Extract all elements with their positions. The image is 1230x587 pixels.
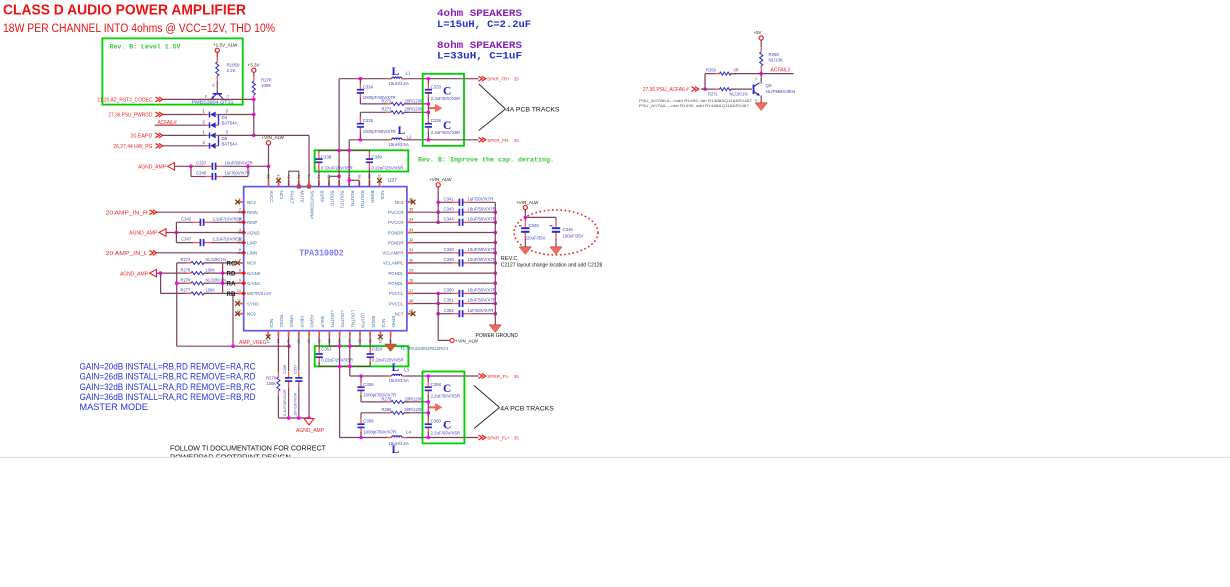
wire AMP_VREG <box>177 345 289 347</box>
wire C339 top <box>368 150 370 152</box>
svg-text:RD: RD <box>227 271 236 278</box>
junction R275 <box>221 271 225 275</box>
svg-text:+VIN_ALW: +VIN_ALW <box>516 200 539 205</box>
wire C348 to gnd bus <box>470 252 495 254</box>
junction gnd bus <box>494 210 498 214</box>
red arrow right channel <box>429 104 443 112</box>
junction ROUTP pins <box>337 175 341 179</box>
svg-text:C356: C356 <box>282 365 287 374</box>
rev B level box <box>102 38 242 104</box>
wire pin39 jog left <box>349 179 359 181</box>
svg-text:27,36 PSU_PWRGD: 27,36 PSU_PWRGD <box>108 113 152 119</box>
diode D4 element A <box>206 112 219 118</box>
svg-text:PGNDR: PGNDR <box>388 240 404 245</box>
svg-text:33: 33 <box>409 228 413 232</box>
wire C338 top <box>318 150 320 152</box>
wire AZ_RST#_CODEC to QT31 and R270 node <box>161 98 254 100</box>
junction C354/LOUTN <box>348 365 352 369</box>
wire pin19 jog right <box>329 345 339 347</box>
no-connect X <box>266 335 271 340</box>
junction C337/C340 <box>189 165 193 169</box>
no-connect X <box>235 301 240 306</box>
svg-text:+VIN_ALW: +VIN_ALW <box>456 338 479 343</box>
pin 15 VREG <box>286 315 294 343</box>
wire C353 bottom <box>318 362 320 367</box>
svg-text:NC9: NC9 <box>247 312 256 317</box>
svg-text:C2127 layout change location a: C2127 layout change location and add C21… <box>501 263 603 269</box>
svg-text:R279: R279 <box>382 396 393 401</box>
wire D4 pin3 to node <box>219 114 254 116</box>
svg-text:R272: R272 <box>382 98 393 103</box>
wire to C360 <box>427 413 429 420</box>
capacitor C348 <box>452 249 470 256</box>
pin 28 PGNDL <box>388 279 413 286</box>
wire C346 to gnd <box>555 239 557 247</box>
junction C353/LOUTP <box>338 365 342 369</box>
resistor R272 <box>386 102 409 105</box>
wire C355 to R279 <box>360 395 362 402</box>
wire R274 node down to AMP_VREG <box>176 263 178 346</box>
wire C341 to gnd bus <box>470 201 495 203</box>
wire R275 to node <box>204 272 223 274</box>
svg-text:LOUTN: LOUTN <box>361 313 366 328</box>
svg-text:R271: R271 <box>708 92 719 97</box>
junction R276 <box>221 281 225 285</box>
svg-text:RC: RC <box>227 260 236 267</box>
inductor L3 <box>387 374 407 376</box>
pin 18 BSLP <box>317 316 325 343</box>
wire ROUTP column <box>338 79 340 187</box>
ground C345 <box>519 247 531 255</box>
svg-text:26,27,44 HW_PG: 26,27,44 HW_PG <box>113 144 152 150</box>
capacitor C344 <box>452 219 470 226</box>
ground Q9 <box>755 103 767 111</box>
wire R270 node down to diodes <box>253 100 255 135</box>
ground AGND_AMP (below IC) <box>304 419 314 426</box>
junction gnd bus <box>494 292 498 296</box>
wire ACFAIL branch down <box>704 74 706 90</box>
junction R273 node <box>427 111 431 115</box>
no-connect X <box>235 261 240 266</box>
svg-text:SYNC: SYNC <box>247 301 259 306</box>
pin 40 ROUTN <box>347 174 355 206</box>
svg-text:NL/1K/1%: NL/1K/1% <box>730 92 749 97</box>
wire LOUTP filter row <box>340 437 479 439</box>
junction AMP_VREG <box>231 344 235 348</box>
wire to C348 <box>413 252 452 254</box>
wire C360 to LOUTP row <box>427 432 429 437</box>
pin 39 ROUTN1 <box>357 174 365 209</box>
svg-text:L3: L3 <box>404 368 409 373</box>
svg-text:C350: C350 <box>444 288 455 293</box>
wire FAULT-MUTE loop <box>289 171 299 186</box>
wire to C352 <box>438 313 452 315</box>
net ACFAIL# label <box>158 120 177 126</box>
pin 38 BSRN <box>367 174 375 202</box>
capacitor C342 <box>193 219 211 226</box>
junction gnd bus <box>494 261 498 265</box>
pin 13 NC3 <box>266 319 274 344</box>
svg-text:EPAD: EPAD <box>391 316 396 328</box>
resistor R279 <box>386 400 409 403</box>
bootstrap box right channel <box>315 150 409 171</box>
wire to C340 <box>191 176 205 178</box>
no-connect X <box>411 311 416 316</box>
svg-text:1000pF/50V/X7R: 1000pF/50V/X7R <box>363 129 396 134</box>
svg-text:C349: C349 <box>444 257 455 262</box>
wire to C349 <box>413 262 452 264</box>
svg-text:C351: C351 <box>444 298 455 303</box>
pin 32 PGNDR <box>388 238 414 245</box>
svg-text:+5V: +5V <box>754 30 762 35</box>
svg-text:AGND: AGND <box>310 315 315 328</box>
wire C336 to ROUTN row <box>427 132 429 140</box>
wire C350 to gnd bus <box>470 292 495 294</box>
wire node to GAIN1 <box>223 282 238 284</box>
wire C353 to LOUTP <box>319 365 370 367</box>
wire to C342 <box>176 221 193 223</box>
capacitor C351 <box>452 300 470 307</box>
thermal pad T1 triangle <box>385 337 397 352</box>
wire input cap loop vertical <box>175 222 177 242</box>
capacitor C359 <box>357 418 364 434</box>
junction gnd bus <box>494 271 498 275</box>
svg-text:L=33uH, C=1uF: L=33uH, C=1uF <box>437 51 522 62</box>
svg-text:C357: C357 <box>292 365 297 374</box>
port arrow AZ_RST#_CODEC <box>155 97 162 102</box>
wire to R272 <box>360 103 391 105</box>
svg-text:0.22uF/25V/X5R: 0.22uF/25V/X5R <box>372 166 404 171</box>
junction D4 cathode node <box>252 113 256 117</box>
junction gnd bus <box>494 241 498 245</box>
ground AGND_AMP (gain) <box>150 269 157 277</box>
svg-text:VCLAMPR: VCLAMPR <box>382 251 403 256</box>
svg-text:4A PCB TRACKS: 4A PCB TRACKS <box>506 107 560 114</box>
svg-text:NL/10K: NL/10K <box>769 58 783 63</box>
svg-text:C344: C344 <box>444 216 455 221</box>
wire to C347 <box>176 242 193 244</box>
svg-text:GAIN0: GAIN0 <box>247 271 261 276</box>
svg-text:AVCC: AVCC <box>269 191 274 203</box>
power +1.5V_ALW <box>215 48 219 52</box>
wire +VIN to cap rows <box>437 187 439 222</box>
port arrow AMP_IN_R <box>150 210 157 215</box>
pin 25 NC7 <box>395 309 414 316</box>
wire BSRN to C339 <box>368 166 370 187</box>
svg-text:FAULT: FAULT <box>289 191 294 205</box>
wire LOUTP column <box>339 337 341 438</box>
pin 35 PVCCR <box>388 208 413 215</box>
capacitor C339 <box>366 153 373 169</box>
pin 45 MUTE <box>296 174 304 203</box>
junction ROUTN pins <box>347 179 351 183</box>
resistor R269 <box>715 72 737 75</box>
svg-text:R277: R277 <box>181 288 192 293</box>
wire pin42 jog right <box>329 175 339 177</box>
svg-text:8ohm SPEAKERS: 8ohm SPEAKERS <box>437 40 522 51</box>
svg-text:PVCCR: PVCCR <box>388 210 403 215</box>
wire LOUTN column <box>349 337 351 376</box>
svg-text:R275: R275 <box>181 267 192 272</box>
wire AGND to C337 <box>175 165 206 167</box>
svg-text:27: 27 <box>409 289 413 293</box>
pin 11 SYNC <box>237 299 259 306</box>
wire pin22 jog down <box>359 337 361 346</box>
svg-text:C342: C342 <box>181 216 192 221</box>
wire PGND row to bus <box>413 242 495 244</box>
junction C359 tap <box>359 436 363 440</box>
wire R279 to C node <box>404 401 428 403</box>
junction C333 tap <box>427 77 431 81</box>
wire C344 to gnd bus <box>470 221 495 223</box>
svg-text:ROUTP1: ROUTP1 <box>340 191 345 209</box>
svg-text:C343: C343 <box>444 206 455 211</box>
svg-text:LINP: LINP <box>247 240 257 245</box>
resistor R278 <box>277 372 280 396</box>
svg-text:100K: 100K <box>261 83 271 88</box>
wire Q9 collector <box>760 74 762 84</box>
pin 44 wire-end square <box>307 185 311 189</box>
svg-text:20R/1206: 20R/1206 <box>405 98 423 103</box>
svg-text:NL/10K/1%: NL/10K/1% <box>206 257 227 262</box>
svg-text:L1: L1 <box>406 71 411 76</box>
wire to C344 <box>413 221 452 223</box>
wire to C355 <box>360 376 362 383</box>
wire node to GAIN0 <box>223 272 238 274</box>
svg-text:10uF/50V/X7R: 10uF/50V/X7R <box>468 247 496 252</box>
pin 22 LOUTN <box>358 313 366 344</box>
svg-text:RINP: RINP <box>247 220 258 225</box>
wire to +VIN_ALW <box>438 339 450 341</box>
svg-text:NC2: NC2 <box>247 200 256 205</box>
diode D6 element B <box>206 143 219 149</box>
svg-text:R274: R274 <box>181 257 192 262</box>
pin 16 VBYP <box>296 316 304 343</box>
svg-text:28: 28 <box>409 279 413 283</box>
svg-text:ACFAIL#: ACFAIL# <box>771 68 791 74</box>
diode D4 element B <box>206 122 219 128</box>
svg-text:0.22uF/25V/X5R: 0.22uF/25V/X5R <box>321 358 353 363</box>
wire to C336 <box>427 112 429 119</box>
wire +VIN_ALW to AVCC pin 48 <box>268 145 270 187</box>
pin 12 NC9 <box>237 309 257 316</box>
wire PVCCL feed vertical <box>437 293 439 340</box>
wire analog gnd bus <box>278 417 309 419</box>
svg-text:+1.5V_ALW: +1.5V_ALW <box>213 43 238 48</box>
junction C360 tap <box>427 436 431 440</box>
junction bulk caps <box>524 216 528 220</box>
svg-text:U27: U27 <box>388 178 398 184</box>
filter cap box right channel <box>423 74 464 146</box>
capacitor C334 <box>357 83 364 99</box>
junction R280 node <box>427 411 431 415</box>
svg-text:35: 35 <box>514 436 519 441</box>
wire pin39 jog up <box>358 180 360 186</box>
svg-text:GAIN=32dB INSTALL=RA,RD REMOVE: GAIN=32dB INSTALL=RA,RD REMOVE=RB,RC <box>80 382 256 392</box>
svg-text:1000pF/50V/X7R: 1000pF/50V/X7R <box>363 393 396 398</box>
svg-text:SPKR_FL-: SPKR_FL- <box>487 374 510 379</box>
svg-text:10uF/50V/X7R: 10uF/50V/X7R <box>225 160 253 165</box>
svg-text:10: 10 <box>237 289 241 293</box>
pin 23 BSLN <box>368 316 376 343</box>
wire C351 to gnd bus <box>470 303 495 305</box>
pin 46 FAULT <box>286 174 294 204</box>
svg-text:C334: C334 <box>363 84 374 89</box>
wire down to C340 <box>190 166 192 176</box>
port arrow PSU_PWRGD <box>155 112 162 117</box>
resistor R274 <box>186 261 209 264</box>
wire to R275 <box>161 272 191 274</box>
capacitor C350 <box>452 290 470 297</box>
pin 29 PGNDL <box>388 269 413 276</box>
svg-text:BAT54A: BAT54A <box>222 120 238 125</box>
capacitor C353 <box>316 348 323 364</box>
no-connect X <box>276 178 281 183</box>
svg-text:TPA3100D2: TPA3100D2 <box>299 248 344 259</box>
svg-text:BSRN: BSRN <box>370 191 375 203</box>
inductor L4 <box>387 436 407 438</box>
svg-text:2.2uF/50V/X5R: 2.2uF/50V/X5R <box>431 431 460 436</box>
svg-text:R270: R270 <box>261 78 272 83</box>
svg-text:100K: 100K <box>206 267 216 272</box>
pin 47 NC1 <box>276 174 284 199</box>
pin 3 RINP <box>238 218 258 225</box>
pin 14 ROSC <box>276 315 284 343</box>
junction gnd bus <box>494 302 498 306</box>
transistor QT31 <box>208 92 229 100</box>
pin 10 MSTR/SLV# <box>237 289 272 296</box>
svg-text:AMP_VREG: AMP_VREG <box>239 340 267 346</box>
svg-text:10uF/50V/X7R: 10uF/50V/X7R <box>468 257 496 262</box>
power ground symbol <box>489 325 501 333</box>
svg-text:L: L <box>392 444 400 456</box>
junction C351 feed <box>436 302 440 306</box>
svg-text:C336: C336 <box>431 118 442 123</box>
wire to C334 <box>359 79 361 85</box>
svg-text:+3.3V: +3.3V <box>248 63 261 68</box>
junction D6 cathode node <box>252 134 256 138</box>
wire C337 to AVCC column <box>223 165 269 167</box>
capacitor C340 <box>205 173 223 180</box>
svg-text:220uF/35V: 220uF/35V <box>525 235 546 240</box>
svg-text:MSTR/SLV#: MSTR/SLV# <box>247 291 272 296</box>
wire R277 to node <box>204 292 223 294</box>
svg-text:1000pF/50V/X7R: 1000pF/50V/X7R <box>363 429 396 434</box>
svg-text:PGNDL: PGNDL <box>388 281 404 286</box>
svg-text:LINN: LINN <box>247 251 257 256</box>
svg-text:NC8: NC8 <box>247 261 256 266</box>
capacitor C357 <box>295 372 302 388</box>
resistor R280 <box>386 411 409 414</box>
svg-text:4: 4 <box>239 228 241 232</box>
svg-text:VREG: VREG <box>289 315 294 328</box>
junction PSU_ACFAIL# <box>703 87 707 91</box>
svg-text:4A PCB TRACKS: 4A PCB TRACKS <box>500 406 554 413</box>
power +VIN_ALW (bulk) <box>523 205 527 209</box>
junction C357 gnd <box>297 416 301 420</box>
svg-text:C348: C348 <box>444 247 455 252</box>
wire D4 common anode <box>218 115 220 126</box>
transistor Q9 <box>754 83 760 96</box>
svg-text:ROUTP: ROUTP <box>330 191 335 206</box>
svg-text:VCLAMPL: VCLAMPL <box>383 261 404 266</box>
junction R270/AZ_RST <box>252 98 256 102</box>
wire ACFAIL# to D4 <box>155 124 206 126</box>
wire +3.3V to R270 <box>253 72 255 76</box>
junction ACFAIL <box>759 72 763 76</box>
wire C354 bottom <box>369 362 371 367</box>
svg-text:27,36 PSU_ACFAIL#: 27,36 PSU_ACFAIL# <box>643 87 689 93</box>
junction LOUTP box top <box>338 344 342 348</box>
svg-text:C360: C360 <box>431 419 442 424</box>
junction C340 return <box>246 165 250 169</box>
wire power gnd bus <box>494 202 496 325</box>
svg-text:CLASS D AUDIO POWER AMPLIFIER: CLASS D AUDIO POWER AMPLIFIER <box>3 2 246 19</box>
pin 41 ROUTP1 <box>337 174 345 209</box>
wire R280 to C node <box>404 412 428 414</box>
power +VIN_ALW (PVCC) <box>436 183 440 187</box>
junction C358 tap <box>427 374 431 378</box>
port arrow PSU_ACFAIL# <box>692 87 699 92</box>
svg-text:C340: C340 <box>196 171 207 176</box>
wire pin42 jog up <box>328 176 330 186</box>
capacitor C345 <box>519 221 530 239</box>
svg-text:GAIN=36dB INSTALL=RA,RC REMOVE: GAIN=36dB INSTALL=RA,RC REMOVE=RB,RD <box>80 392 256 402</box>
junction C356 gnd <box>287 416 291 420</box>
wire pin22 jog left <box>350 345 360 347</box>
svg-text:SPKR_FR-: SPKR_FR- <box>487 138 510 143</box>
wire C356 to gnd bus <box>288 388 290 419</box>
resistor R276 <box>186 282 209 285</box>
svg-text:0.1uF/16V/X5R: 0.1uF/16V/X5R <box>282 389 287 416</box>
wire LOUTN filter row <box>350 375 479 377</box>
svg-text:2.2uF/50V/X5R: 2.2uF/50V/X5R <box>431 130 460 135</box>
svg-text:RA: RA <box>227 281 236 288</box>
wire AMP_IN_L to LINN <box>157 252 244 254</box>
svg-text:L: L <box>398 125 406 137</box>
inductor L2 <box>387 138 407 140</box>
svg-text:30: 30 <box>409 258 413 262</box>
no-connect X <box>411 200 416 205</box>
svg-text:1uF/50V/X7R: 1uF/50V/X7R <box>468 308 494 313</box>
svg-text:0.22uF/25V/X5R: 0.22uF/25V/X5R <box>321 166 353 171</box>
wire C342 to RINP <box>211 221 244 223</box>
svg-text:AGND_AMP: AGND_AMP <box>120 271 149 277</box>
svg-text:8: 8 <box>239 269 241 273</box>
svg-text:9: 9 <box>239 279 241 283</box>
svg-text:PVCCL: PVCCL <box>389 301 404 306</box>
svg-text:20R/1206: 20R/1206 <box>405 396 423 401</box>
power +VIN_ALW (AVCC) <box>266 141 270 145</box>
capacitor C356 <box>285 372 292 388</box>
junction C344 <box>436 221 440 225</box>
svg-text:35: 35 <box>514 77 519 82</box>
svg-text:R269: R269 <box>706 67 717 72</box>
power +5V <box>759 36 763 40</box>
wire BSLN to C354 <box>369 337 371 350</box>
svg-text:RINN: RINN <box>247 210 258 215</box>
port arrow EAPD <box>155 133 162 138</box>
pin 4 AGND <box>238 228 260 235</box>
wire to R276 <box>177 282 191 284</box>
svg-text:1uF/16V/X5R: 1uF/16V/X5R <box>292 392 297 416</box>
callout 4A PCB tracks top <box>479 84 560 131</box>
svg-text:100K: 100K <box>206 288 216 293</box>
junction gnd bus <box>494 221 498 225</box>
ground C346 <box>550 247 562 255</box>
pin 37 NC6 <box>377 174 385 199</box>
pin 20 LOUTP2 <box>337 310 345 343</box>
